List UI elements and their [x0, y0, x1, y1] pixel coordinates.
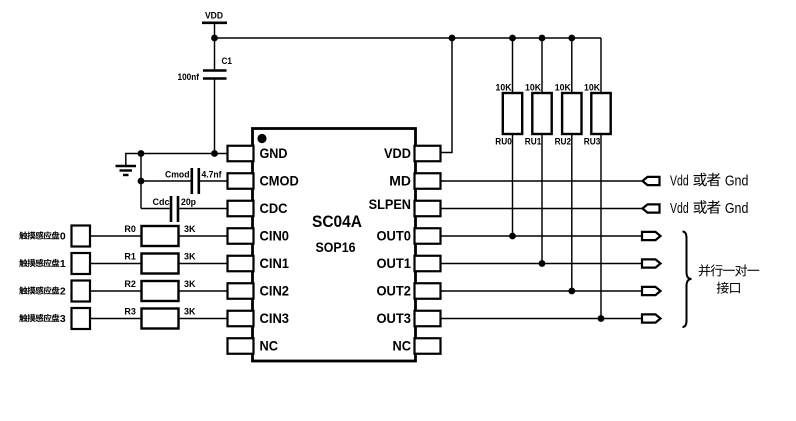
- wire RU2 to OUT2 row: [571, 134, 573, 291]
- wire OUT0 to connector: [441, 235, 643, 237]
- touch pad label 触摸感应盘2: [19, 286, 66, 297]
- pin SLPEN (right 14): [369, 196, 441, 216]
- node rail junction RU1: [539, 35, 546, 42]
- pin OUT2 (right 11): [377, 283, 441, 299]
- touch pad label 触摸感应盘0: [19, 231, 66, 242]
- wire rail to RU3: [600, 38, 602, 93]
- svg-text:Gnd: Gnd: [725, 201, 749, 217]
- wire OUT1 to connector: [441, 263, 643, 265]
- svg-text:1: 1: [60, 259, 66, 270]
- label Vdd 或者 Gnd (MD): [670, 173, 748, 190]
- resistor RU2 10K: [555, 82, 582, 146]
- connector OUT0: [642, 232, 661, 240]
- wire RU0 to OUT0 row: [512, 134, 514, 236]
- IC U1 SC04A body: [253, 129, 416, 362]
- svg-text:Gnd: Gnd: [725, 173, 749, 189]
- connector SLPEN (Vdd or Gnd): [643, 204, 660, 212]
- wire R3 to CIN3 pin: [179, 318, 228, 320]
- resistor R1 3K: [124, 252, 195, 274]
- svg-text:3K: 3K: [184, 224, 196, 235]
- touch pad 0: [72, 226, 91, 247]
- connector OUT2: [642, 287, 661, 295]
- svg-text:4.7nf: 4.7nf: [202, 170, 223, 181]
- node C1/GND junction: [211, 150, 218, 157]
- svg-text:CIN3: CIN3: [260, 310, 290, 326]
- wire C1 to GND row: [214, 80, 216, 154]
- svg-text:SLPEN: SLPEN: [369, 196, 411, 212]
- svg-text:CMOD: CMOD: [260, 173, 299, 189]
- wire MD to connector: [441, 180, 644, 182]
- connector OUT3: [642, 314, 661, 322]
- pin 1 marker dot: [257, 134, 266, 143]
- svg-text:10K: 10K: [555, 82, 571, 92]
- touch pad label 触摸感应盘3: [19, 314, 66, 325]
- svg-text:RU2: RU2: [555, 137, 572, 147]
- ground: [116, 166, 137, 175]
- svg-text:20p: 20p: [181, 197, 196, 208]
- svg-text:CIN2: CIN2: [260, 283, 290, 299]
- svg-text:OUT1: OUT1: [377, 255, 412, 271]
- touch pad 1: [72, 253, 91, 274]
- svg-text:MD: MD: [389, 173, 411, 189]
- svg-text:RU1: RU1: [525, 137, 542, 147]
- svg-text:VDD: VDD: [384, 145, 411, 161]
- pin CDC (left 3): [228, 200, 288, 216]
- wire Cmod to CMOD pin: [200, 180, 228, 182]
- node rail/VDD-pin junction: [449, 35, 456, 42]
- pin MD (right 15): [389, 173, 440, 189]
- pin GND (left 1): [228, 145, 288, 161]
- svg-text:3K: 3K: [184, 252, 196, 263]
- connector OUT1: [642, 259, 661, 267]
- node RU1/OUT1 junction: [539, 260, 546, 267]
- pin NC (right 9): [393, 338, 441, 354]
- svg-text:R2: R2: [124, 279, 136, 290]
- svg-text:100nf: 100nf: [178, 72, 200, 83]
- touch pad 2: [72, 281, 91, 302]
- wire OUT3 to connector: [441, 318, 643, 320]
- svg-text:OUT2: OUT2: [377, 283, 412, 299]
- wire SLPEN to connector: [441, 208, 644, 210]
- connector MD (Vdd or Gnd): [643, 177, 660, 185]
- resistor R3 3K: [124, 307, 195, 329]
- wire to Cmod: [141, 180, 191, 182]
- svg-text:SC04A: SC04A: [312, 212, 362, 231]
- svg-text:Cmod: Cmod: [165, 170, 190, 181]
- svg-text:2: 2: [60, 287, 66, 298]
- wire RU3 to OUT3 row: [600, 134, 602, 319]
- pin CIN2 (left 6): [228, 283, 290, 299]
- resistor RU3 10K: [584, 82, 611, 146]
- svg-text:10K: 10K: [584, 82, 600, 92]
- node RU2/OUT2 junction: [568, 288, 575, 295]
- wire pad1 to R1: [90, 263, 142, 265]
- label 并行一对一接口: [699, 264, 760, 293]
- wire VDD to C1: [214, 24, 216, 70]
- svg-text:Vdd: Vdd: [670, 201, 689, 217]
- svg-text:RU0: RU0: [495, 137, 512, 147]
- node cap column junction: [138, 150, 145, 157]
- wire R2 to CIN2 pin: [179, 290, 228, 292]
- resistor R0 3K: [124, 224, 195, 246]
- svg-text:CIN1: CIN1: [260, 255, 290, 271]
- svg-text:R1: R1: [124, 252, 136, 263]
- resistor RU0 10K: [495, 82, 522, 146]
- label Vdd 或者 Gnd (SLPEN): [670, 200, 748, 217]
- svg-text:3: 3: [60, 314, 66, 325]
- svg-text:R0: R0: [124, 224, 136, 235]
- resistor R2 3K: [124, 279, 195, 301]
- wire rail to RU0: [512, 38, 514, 93]
- svg-text:Cdc: Cdc: [153, 197, 170, 208]
- node VDD rail junction: [211, 35, 218, 42]
- wire rail to RU1: [541, 38, 543, 93]
- svg-text:SOP16: SOP16: [316, 240, 356, 255]
- wire rail to RU2: [571, 38, 573, 93]
- svg-text:NC: NC: [260, 338, 279, 354]
- node RU3/OUT3 junction: [598, 315, 605, 322]
- wire Cdc to CDC pin: [179, 208, 227, 210]
- svg-text:C1: C1: [222, 56, 233, 67]
- wire GND pin to ground: [126, 154, 228, 166]
- resistor RU1 10K: [525, 82, 552, 146]
- pin CIN1 (left 5): [228, 255, 290, 271]
- wire OUT2 to connector: [441, 290, 643, 292]
- svg-text:3K: 3K: [184, 279, 196, 290]
- svg-text:3K: 3K: [184, 307, 196, 318]
- wire R1 to CIN1 pin: [179, 263, 228, 265]
- pin OUT3 (right 10): [377, 310, 441, 326]
- svg-text:RU3: RU3: [584, 137, 601, 147]
- pin CMOD (left 2): [228, 173, 299, 189]
- wire RU1 to OUT1 row: [541, 134, 543, 264]
- svg-text:R3: R3: [124, 307, 136, 318]
- touch pad 3: [72, 308, 91, 329]
- brace parallel interface: [683, 232, 692, 328]
- svg-text:CIN0: CIN0: [260, 228, 290, 244]
- wire to Cdc: [141, 208, 170, 210]
- wire VDD top rail: [215, 37, 602, 39]
- power symbol VDD: [202, 11, 227, 23]
- wire pad3 to R3: [90, 318, 142, 320]
- pin NC (left 8): [228, 338, 279, 354]
- wire cap column: [140, 154, 142, 209]
- svg-text:10K: 10K: [496, 82, 512, 92]
- svg-text:GND: GND: [260, 145, 288, 161]
- svg-text:OUT0: OUT0: [377, 228, 412, 244]
- pin OUT0 (right 13): [377, 228, 441, 244]
- svg-text:10K: 10K: [525, 82, 541, 92]
- wire pad0 to R0: [90, 235, 142, 237]
- node Cmod junction: [138, 178, 145, 185]
- node rail junction RU0: [509, 35, 516, 42]
- wire VDD pin to rail: [441, 38, 453, 153]
- wire R0 to CIN0 pin: [179, 235, 228, 237]
- capacitor Cdc 20p: [153, 196, 197, 222]
- pin CIN0 (left 4): [228, 228, 290, 244]
- svg-text:0: 0: [60, 232, 66, 243]
- capacitor C1 100nf: [178, 56, 233, 83]
- wire pad2 to R2: [90, 290, 142, 292]
- node RU0/OUT0 junction: [509, 233, 516, 240]
- touch pad label 触摸感应盘1: [19, 259, 66, 270]
- capacitor Cmod 4.7nf: [165, 168, 222, 194]
- node rail junction RU2: [568, 35, 575, 42]
- pin VDD (right 16): [384, 145, 441, 161]
- svg-text:CDC: CDC: [260, 200, 288, 216]
- svg-text:VDD: VDD: [205, 11, 223, 22]
- svg-text:OUT3: OUT3: [377, 310, 412, 326]
- pin CIN3 (left 7): [228, 310, 290, 326]
- svg-text:Vdd: Vdd: [670, 173, 689, 189]
- pin OUT1 (right 12): [377, 255, 441, 271]
- svg-text:NC: NC: [393, 338, 412, 354]
